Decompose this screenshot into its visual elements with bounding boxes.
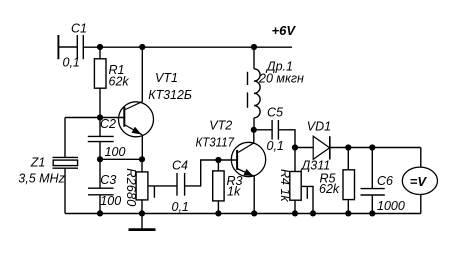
svg-text:=V: =V xyxy=(410,174,428,189)
VT1 emitter arrow xyxy=(132,127,142,135)
resistor R2 xyxy=(136,172,148,200)
svg-text:VT1: VT1 xyxy=(155,71,178,85)
node dot VD1 anode xyxy=(292,144,298,150)
wire R4 top xyxy=(294,148,296,172)
svg-text:0,1: 0,1 xyxy=(267,139,284,153)
capacitor C4 xyxy=(176,173,178,196)
capacitor C2 xyxy=(88,135,114,137)
node dot rail R4 tap xyxy=(310,210,316,216)
wire choke to collector node xyxy=(253,118,255,130)
node dot top R1 xyxy=(97,44,103,50)
wire C2 top xyxy=(99,118,101,137)
wire R3 bottom xyxy=(217,201,219,214)
VT2 emitter arrow xyxy=(243,169,253,176)
wire VT1 collector xyxy=(141,47,143,102)
svg-text:C6: C6 xyxy=(377,174,393,188)
wire voltmeter bottom xyxy=(420,195,422,214)
wire R3 top xyxy=(217,160,219,171)
svg-text:100: 100 xyxy=(105,145,126,159)
node dot top choke xyxy=(251,44,257,50)
node dot C6 top xyxy=(369,144,375,150)
wire C5 to VD1 node xyxy=(278,130,295,148)
svg-text:62k: 62k xyxy=(109,75,130,89)
resistor R3 xyxy=(213,171,224,201)
R2 tap tick xyxy=(153,186,155,198)
capacitor C6 xyxy=(361,188,385,190)
node dot emitter right xyxy=(139,156,145,162)
wire top to choke xyxy=(253,47,255,69)
R4 tap tick xyxy=(306,186,308,198)
capacitor C3 xyxy=(88,187,114,189)
transistor VT2 xyxy=(231,142,265,176)
wire R2 tap to C4 xyxy=(148,185,177,187)
svg-text:20 мкгн: 20 мкгн xyxy=(258,72,304,86)
wire C4 to VT2 base xyxy=(185,160,238,186)
svg-text:C1: C1 xyxy=(71,21,87,35)
input terminal xyxy=(57,35,59,59)
wire C6 top xyxy=(371,148,373,189)
wire R2 bottom xyxy=(141,200,143,214)
resistor R4 xyxy=(290,172,301,201)
wire C3 bottom xyxy=(99,195,101,214)
wire R2 top xyxy=(141,159,143,172)
wire collector node to C5 xyxy=(254,129,272,131)
svg-text:C2: C2 xyxy=(100,117,116,131)
capacitor C5 xyxy=(271,120,273,140)
wire top rail +6V xyxy=(83,46,292,48)
svg-text:100: 100 xyxy=(100,194,121,208)
svg-text:R2680: R2680 xyxy=(124,168,138,206)
wire R4 bottom xyxy=(294,200,296,213)
svg-text:C3: C3 xyxy=(100,173,116,187)
wire R1 bottom to base node xyxy=(99,88,101,117)
svg-text:0,1: 0,1 xyxy=(63,55,80,69)
svg-text:1k: 1k xyxy=(227,184,241,198)
node dot rail VT2 emitter xyxy=(251,210,257,216)
wire C2 bottom xyxy=(99,142,101,160)
svg-text:VD1: VD1 xyxy=(307,119,331,133)
wire input to C1 xyxy=(58,46,77,48)
svg-text:0,1: 0,1 xyxy=(172,200,189,214)
node dot rail R5 xyxy=(345,210,351,216)
svg-text:1000: 1000 xyxy=(377,199,405,213)
node dot R5 top xyxy=(345,144,351,150)
node dot rail C3 xyxy=(97,210,103,216)
svg-text:Д311: Д311 xyxy=(300,159,331,173)
wire R5 top xyxy=(347,148,349,170)
crystal Z1 xyxy=(53,156,79,158)
wire C3 top xyxy=(99,159,101,188)
ground xyxy=(141,213,143,229)
wire to voltmeter top xyxy=(420,148,422,168)
svg-text:VT2: VT2 xyxy=(209,118,232,132)
node dot top VT1 collector xyxy=(139,44,145,50)
voltmeter PV1 xyxy=(402,167,437,194)
wire left branch down to crystal xyxy=(64,118,66,158)
diode VD1 xyxy=(313,136,329,159)
node dot rail C6 xyxy=(369,210,375,216)
wire VT2 emitter xyxy=(253,176,255,213)
svg-text:R4 1k: R4 1k xyxy=(278,169,292,202)
capacitor C1 xyxy=(76,35,78,59)
wire VT1 emitter xyxy=(141,135,143,160)
node dot rail R4 xyxy=(292,210,298,216)
node dot rail R3 xyxy=(215,210,221,216)
resistor R1 xyxy=(94,59,106,88)
node dot VT2 collector xyxy=(251,127,257,133)
wire C6 bottom xyxy=(371,195,373,213)
svg-text:62k: 62k xyxy=(319,182,340,196)
wire VT2 collector xyxy=(253,130,255,143)
svg-text:КТ3117: КТ3117 xyxy=(196,135,235,149)
wire emitter node horizontal xyxy=(100,158,142,160)
inductor Dr1 xyxy=(254,69,260,118)
wire bottom ground rail xyxy=(65,213,421,215)
wire R5 bottom xyxy=(347,200,349,214)
svg-text:Z1: Z1 xyxy=(30,155,46,169)
node dot rail R2 xyxy=(139,210,145,216)
wire VD1 cathode to right xyxy=(330,147,421,149)
svg-text:3,5 MHz: 3,5 MHz xyxy=(18,172,65,186)
R4 tap lead xyxy=(301,186,313,213)
svg-text:+6V: +6V xyxy=(272,23,297,38)
node dot R3 top xyxy=(215,157,221,163)
svg-text:C5: C5 xyxy=(267,105,283,119)
svg-text:C4: C4 xyxy=(172,159,188,173)
node dot base VT1 xyxy=(97,114,103,120)
node dot emitter left xyxy=(97,156,103,162)
wire R1 top xyxy=(99,47,101,59)
wire VD1 anode xyxy=(295,147,313,149)
svg-text:КТ312Б: КТ312Б xyxy=(148,88,192,102)
resistor R5 xyxy=(343,170,355,200)
wire crystal to ground rail xyxy=(64,168,66,213)
wire base node horizontal xyxy=(65,117,124,119)
transistor VT1 xyxy=(119,102,154,137)
Dr1 core dashes xyxy=(247,72,249,85)
